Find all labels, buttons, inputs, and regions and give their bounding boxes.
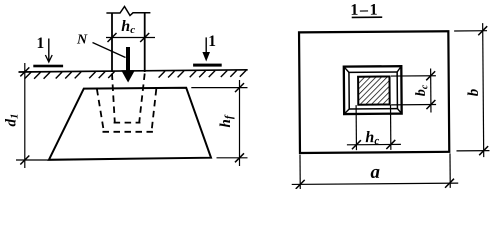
tick b bottom — [479, 146, 488, 155]
dimension line b_c — [430, 69, 432, 113]
tick h_c plan left — [352, 140, 361, 149]
break line at column top — [106, 7, 150, 16]
section marker 1 left: open arrowhead — [45, 55, 52, 62]
extension line a left — [299, 155, 301, 189]
tick right h_c — [140, 33, 149, 42]
embedded column (dashed) — [112, 74, 145, 123]
tick b_c top — [426, 71, 435, 80]
tick d_1 bottom — [20, 156, 29, 165]
svg-text:N: N — [76, 32, 88, 47]
svg-text:1: 1 — [208, 33, 216, 50]
ground line — [19, 70, 248, 72]
svg-text:hc: hc — [365, 129, 379, 147]
svg-text:d1: d1 — [3, 114, 20, 127]
tick a left — [296, 180, 305, 189]
force arrow N (head) — [121, 70, 135, 82]
tick left h_c — [108, 33, 117, 42]
dimension line d_1 — [24, 63, 26, 168]
extension line footing top right — [191, 87, 247, 89]
leader line from N to force arrow — [93, 43, 126, 58]
svg-text:hc: hc — [121, 18, 135, 36]
column right edge — [144, 13, 146, 72]
section marker 1 left: thick cut bar — [33, 65, 63, 68]
section marker 1 right: arrow shaft — [205, 37, 207, 56]
socket corner mitre top-left — [344, 67, 349, 73]
svg-text:b: b — [466, 88, 482, 96]
socket corner mitre bottom-right — [397, 109, 401, 114]
ground hatching — [25, 70, 247, 79]
extension line footing bottom right — [217, 157, 248, 159]
extension line b bottom — [456, 150, 489, 152]
socket outer edge (plan) — [344, 66, 402, 114]
tick b_c bottom — [426, 100, 435, 109]
extension line a right — [449, 153, 451, 187]
section marker 1 left: arrow shaft — [48, 39, 50, 62]
column section (hatched) — [358, 76, 390, 104]
svg-text:hf: hf — [218, 114, 235, 127]
tick a right — [445, 179, 454, 188]
tick h_f bottom — [235, 153, 244, 162]
svg-text:a: a — [370, 162, 380, 183]
dimension line h_c (elevation) — [106, 37, 155, 39]
svg-text:1: 1 — [37, 35, 45, 52]
tick b top — [478, 26, 487, 35]
dimension line h_c plan — [347, 143, 401, 145]
svg-text:1–1: 1–1 — [350, 2, 379, 19]
extension line b top — [454, 30, 487, 32]
footing outline (trapezoid) — [49, 88, 211, 160]
socket cavity (dashed) — [97, 89, 156, 132]
tick h_c plan right — [386, 140, 395, 149]
section marker 1 right: thick cut bar — [193, 64, 222, 67]
extension line h_c plan right — [390, 105, 392, 150]
dimension line h_f — [239, 80, 241, 166]
section marker 1 right: filled arrowhead — [202, 52, 210, 62]
extension line b_c top — [391, 75, 436, 77]
column left edge — [111, 13, 113, 72]
extension line b_c bottom — [391, 104, 436, 106]
footing plan outline — [299, 31, 449, 153]
force arrow N (shaft) — [126, 47, 130, 72]
title underline — [352, 16, 382, 18]
socket corner mitre bottom-left — [344, 109, 349, 114]
dimension line a — [292, 183, 458, 184]
svg-text:bc: bc — [414, 84, 431, 96]
dimension line b — [483, 23, 484, 157]
extension line h_c plan left — [355, 105, 357, 150]
tick d_1 top — [20, 67, 29, 76]
tick h_f top — [235, 83, 244, 92]
socket inner edge (plan) — [349, 72, 397, 109]
socket corner mitre top-right — [397, 66, 401, 72]
extension line footing bottom left — [16, 159, 48, 161]
